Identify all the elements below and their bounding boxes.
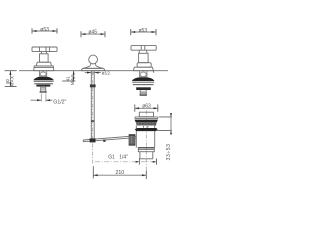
drain flange top line bbox=[135, 117, 158, 119]
drain centerline bbox=[145, 111, 147, 172]
svg-text:MAX: MAX bbox=[70, 74, 75, 85]
deck line bbox=[19, 70, 168, 72]
horizontal lever rod bbox=[83, 136, 129, 141]
lever clamp at rod bbox=[90, 138, 96, 142]
svg-text:G1: G1 bbox=[108, 155, 115, 161]
left valve: flange bbox=[36, 62, 51, 66]
drain flange disc bbox=[135, 118, 158, 120]
left valve: shank nut bbox=[40, 71, 47, 76]
drain knurled ring bbox=[136, 122, 157, 125]
dimension line at tail bbox=[95, 158, 157, 164]
pop-up rod below deck bbox=[91, 71, 94, 141]
dimension ø63 drain bbox=[135, 104, 158, 112]
left valve: locknut dark band bbox=[36, 85, 50, 87]
right valve: flange bbox=[137, 63, 151, 67]
rod coupler bbox=[90, 84, 96, 87]
dimension 33÷53 bbox=[157, 113, 172, 160]
right valve: threaded tail bbox=[140, 90, 147, 96]
lever knurled connector bbox=[129, 135, 136, 146]
center pop-up knob: bell dome bbox=[83, 64, 103, 68]
left valve: body bbox=[40, 54, 49, 62]
right valve: shank nut bbox=[140, 71, 147, 77]
dimension ø53 right handle bbox=[131, 28, 156, 35]
dimension 210 bbox=[93, 166, 146, 179]
drain flange seal dark band (knurled) bbox=[135, 120, 159, 123]
svg-text:ø53: ø53 bbox=[138, 28, 147, 34]
svg-text:G1/2": G1/2" bbox=[53, 99, 66, 105]
svg-text:MAX: MAX bbox=[10, 76, 15, 87]
dimension ø12 bbox=[85, 71, 110, 77]
rod joint tick bbox=[91, 120, 95, 122]
right valve: neck stem bbox=[139, 50, 147, 53]
drain plug top bbox=[139, 112, 153, 117]
center pop-up knob: ball bbox=[89, 55, 98, 64]
right valve: rubber umbrella washer bbox=[132, 77, 154, 81]
left valve: washer lines bbox=[34, 80, 54, 82]
drain coupling collar bbox=[138, 148, 154, 152]
lever set screw bbox=[103, 140, 105, 142]
center pop-up knob: neck bbox=[91, 63, 96, 64]
svg-text:ø53: ø53 bbox=[40, 27, 49, 33]
svg-text:ø63: ø63 bbox=[142, 104, 151, 110]
svg-text:33÷53: 33÷53 bbox=[166, 144, 172, 161]
right valve: locknut dark band bbox=[136, 87, 151, 90]
dimension 50 MAX bbox=[5, 71, 17, 87]
svg-text:1/4": 1/4" bbox=[119, 155, 128, 161]
right valve: cross handle bar (front view) bbox=[131, 46, 156, 51]
drain body top shadow band bbox=[135, 128, 158, 131]
left valve: rubber umbrella washer bbox=[34, 77, 54, 81]
drain tail tube G1 1/4 bbox=[140, 152, 153, 159]
svg-text:ø12: ø12 bbox=[102, 71, 111, 77]
dimension 41 MAX bbox=[62, 71, 75, 85]
right valve: body bbox=[139, 53, 149, 62]
left valve: neck bbox=[41, 52, 47, 54]
dimension G1/2 bbox=[31, 94, 67, 106]
left valve: threaded tail G1/2 bbox=[40, 87, 47, 93]
dimension ø45 center knob bbox=[81, 30, 105, 38]
left valve: base bbox=[34, 66, 54, 71]
drain body bbox=[136, 126, 154, 148]
svg-text:210: 210 bbox=[115, 170, 124, 176]
right valve: washer lines bbox=[132, 81, 154, 83]
pop-up rod centerline bbox=[92, 72, 94, 165]
svg-text:ø45: ø45 bbox=[88, 30, 97, 36]
right valve: base bbox=[133, 67, 153, 71]
left valve: cross handle bar (side view) bbox=[32, 47, 57, 52]
center pop-up knob: base disc bbox=[81, 68, 105, 70]
dimension ø53 left handle bbox=[32, 27, 57, 34]
